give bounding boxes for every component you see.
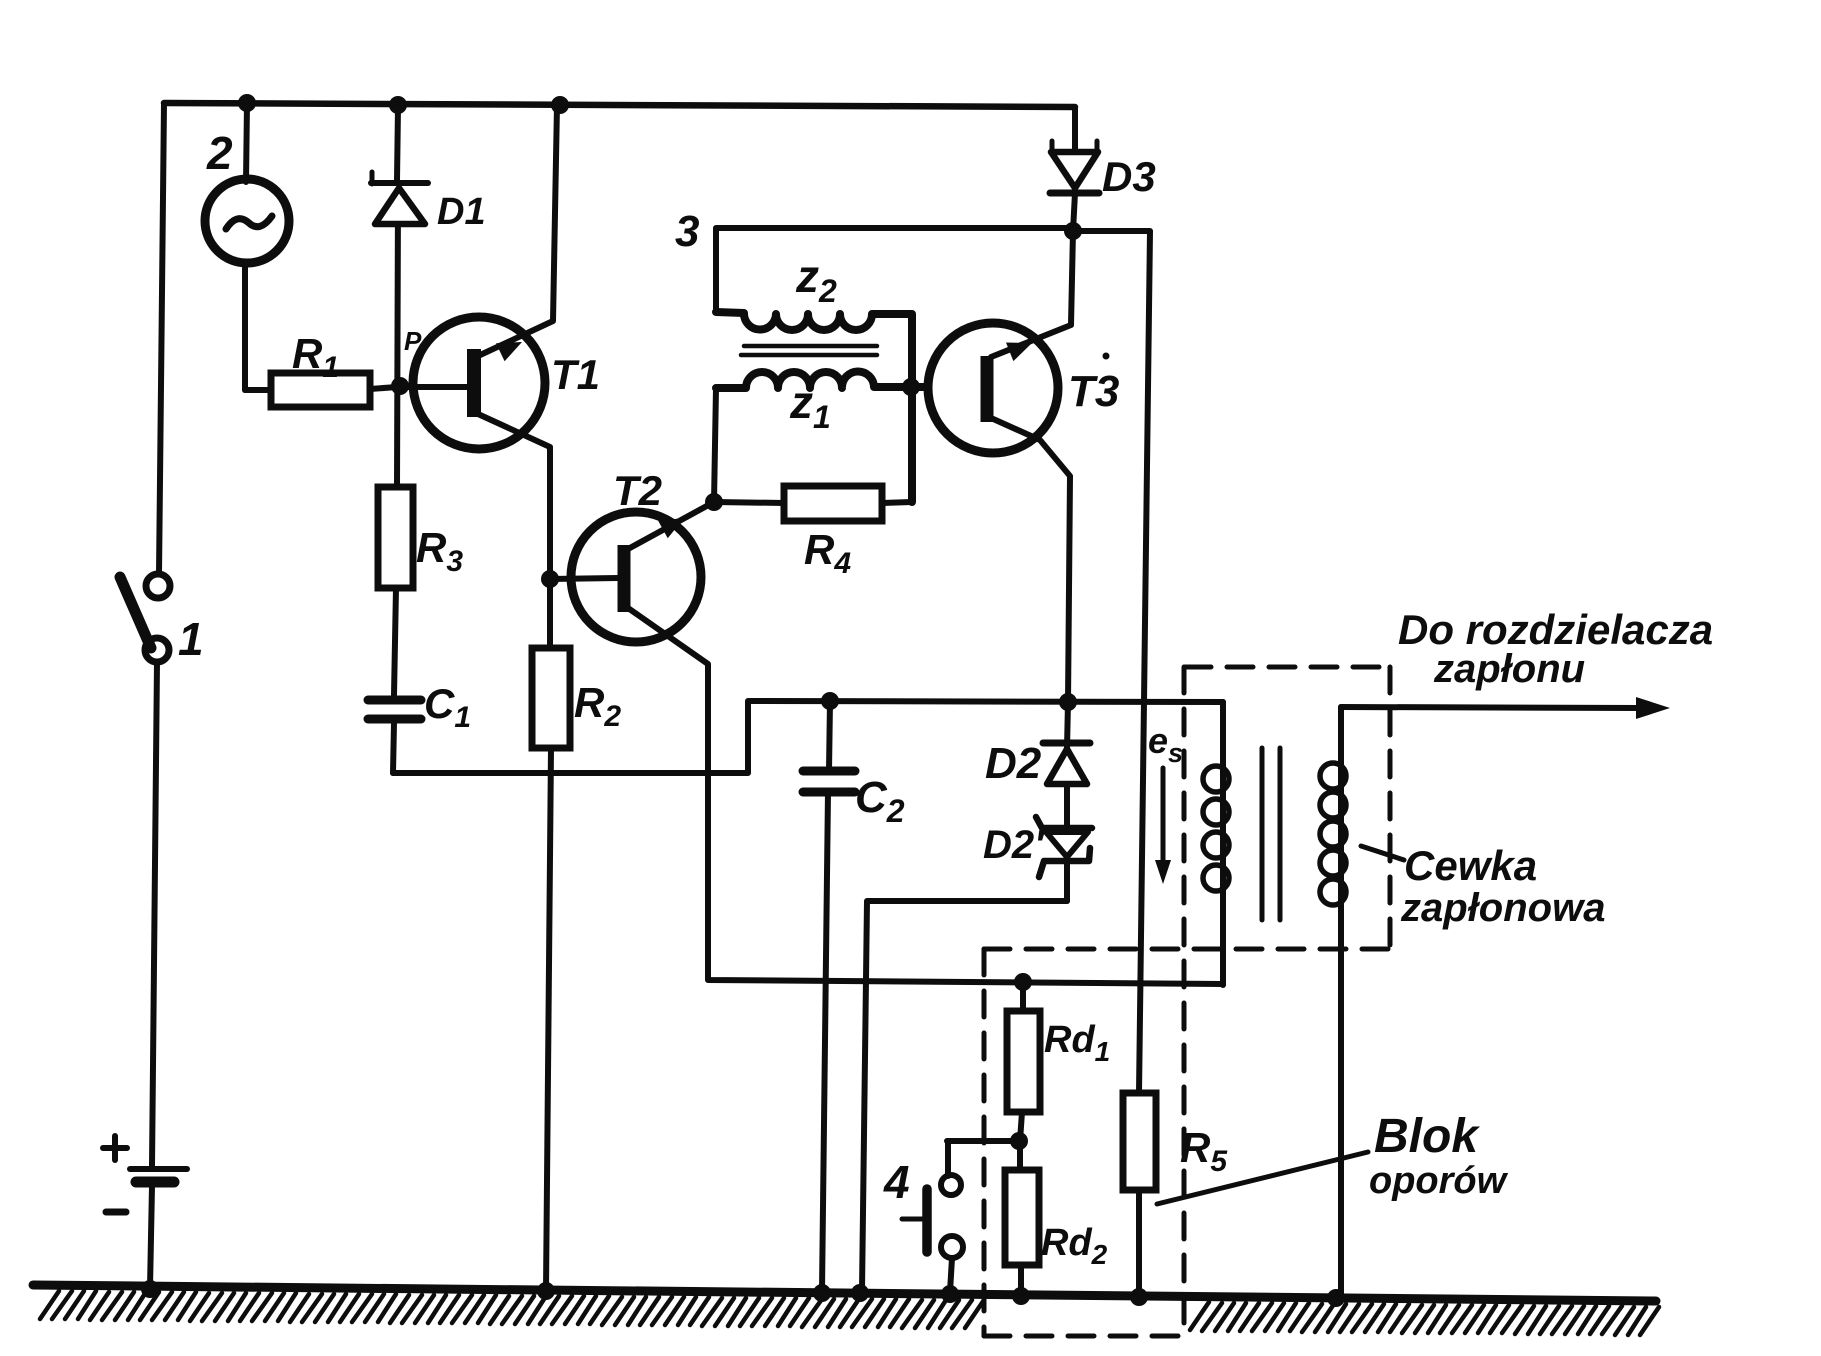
svg-text:Cewka: Cewka (1404, 842, 1537, 889)
svg-text:D3: D3 (1102, 153, 1156, 200)
svg-text:3: 3 (675, 207, 699, 256)
svg-text:Do rozdzielacza: Do rozdzielacza (1398, 606, 1713, 653)
svg-text:1: 1 (178, 613, 204, 665)
svg-text:zapłonu: zapłonu (1433, 647, 1585, 691)
svg-text:4: 4 (883, 1156, 910, 1208)
svg-text:oporów: oporów (1369, 1160, 1509, 1202)
svg-text:T1: T1 (551, 351, 600, 398)
svg-text:D2: D2 (985, 739, 1042, 788)
svg-text:T2: T2 (613, 467, 662, 514)
svg-text:zapłonowa: zapłonowa (1400, 886, 1605, 930)
svg-text:Blok: Blok (1374, 1110, 1480, 1163)
svg-text:D1: D1 (437, 191, 486, 233)
svg-text:2: 2 (206, 127, 233, 179)
svg-text:T3: T3 (1068, 367, 1119, 416)
svg-text:P: P (404, 326, 422, 356)
svg-text:D2′: D2′ (983, 823, 1046, 867)
